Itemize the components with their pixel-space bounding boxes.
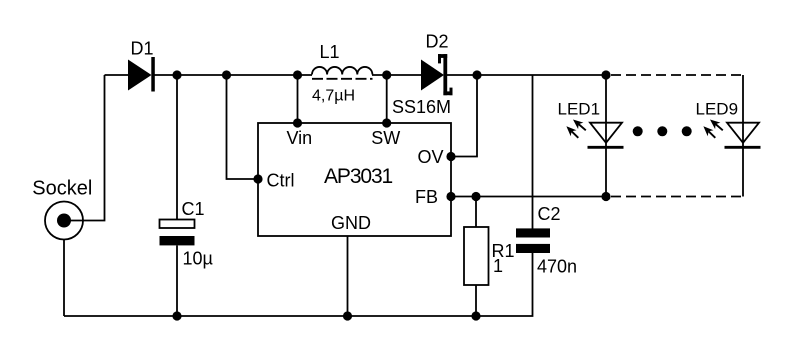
op-amp U1 AP3031 body: [258, 123, 451, 236]
wire: GND pin down to ground rail: [347, 236, 349, 316]
wire: R1 top lead: [475, 197, 477, 228]
ellipsis dots for LED2..LED8: [633, 126, 692, 136]
junction: LED1 anode node on output rail: [601, 70, 610, 79]
junction: FB pin: [446, 192, 455, 201]
wire: top rail, L1 to D2 anode: [372, 74, 422, 76]
junction: GND pin lead on ground rail: [343, 311, 352, 320]
wire: FB net horizontal to LED1 cathode column: [451, 196, 606, 198]
junction: R1 bottom on ground rail: [471, 311, 480, 320]
resistor R1: [464, 227, 489, 285]
junction: SW pin: [382, 118, 391, 127]
wire: dashed top edge of LED2..LED8 box: [611, 74, 743, 76]
wire: C1 bottom lead: [176, 246, 178, 317]
capacitor C2: [516, 228, 550, 253]
diode D1: [128, 57, 155, 92]
LED LED9: [703, 120, 760, 148]
junction: R1 top on FB net: [471, 192, 480, 201]
svg-text:GND: GND: [331, 213, 371, 233]
svg-text:470n: 470n: [537, 257, 577, 277]
svg-text:1: 1: [493, 256, 503, 276]
wire: C1 top lead: [176, 75, 178, 220]
wire: LED9 column: [742, 75, 744, 197]
junction: Ctrl branch node on top rail: [222, 70, 231, 79]
wire: dashed bottom edge of LED2..LED8 box: [611, 196, 743, 198]
svg-text:D1: D1: [131, 39, 154, 59]
junction: Vin pin: [293, 118, 302, 127]
wire: R1 bottom lead: [475, 285, 477, 316]
wire: Ctrl branch from top rail to Ctrl pin: [227, 75, 259, 179]
junction: LED1 cathode on FB net: [601, 192, 610, 201]
wire: top rail, socket corner to D1 anode: [105, 74, 129, 76]
connector J1 socket symbol: [45, 202, 83, 240]
svg-text:AP3031: AP3031: [324, 165, 393, 188]
junction: Ctrl pin: [253, 174, 262, 183]
svg-text:Sockel: Sockel: [32, 178, 92, 200]
inductor L1: [312, 67, 373, 79]
wire: SW branch from top rail to SW pin: [386, 75, 388, 123]
svg-text:SS16M: SS16M: [392, 97, 451, 117]
wire: socket sleeve down to ground rail: [63, 240, 65, 317]
svg-text:L1: L1: [320, 42, 340, 62]
junction: OV pin: [446, 152, 455, 161]
wire: OV pin right and up to top rail: [451, 75, 477, 157]
svg-text:OV: OV: [418, 147, 444, 167]
junction: SW branch node on top rail: [382, 70, 391, 79]
svg-text:FB: FB: [415, 187, 438, 207]
svg-text:D2: D2: [426, 32, 449, 52]
svg-text:4,7µH: 4,7µH: [312, 88, 355, 105]
LED LED1: [566, 120, 623, 148]
svg-text:C2: C2: [538, 204, 561, 224]
wire: bottom ground rail with rise to C2: [64, 253, 533, 316]
svg-text:10µ: 10µ: [183, 249, 213, 269]
svg-text:LED9: LED9: [696, 99, 739, 118]
wire: top rail, D2 cathode to LED1 anode column: [446, 74, 606, 76]
wire: Vin branch from top rail to Vin pin: [297, 75, 299, 123]
svg-text:SW: SW: [371, 128, 400, 148]
wire: C2 top lead from top rail: [532, 75, 534, 229]
junction: OV branch node on output rail: [472, 70, 481, 79]
junction: C1 bottom on ground rail: [172, 311, 181, 320]
svg-text:Ctrl: Ctrl: [267, 171, 295, 191]
svg-text:C1: C1: [182, 199, 205, 219]
junction: Vin branch node on top rail: [293, 70, 302, 79]
junction: C1 top node on top rail: [172, 70, 181, 79]
svg-text:LED1: LED1: [558, 99, 601, 118]
capacitor C1 (polarized): [160, 220, 195, 246]
wire: LED1 column: [605, 75, 607, 197]
wire: left vertical from top rail down to socket tip: [64, 75, 105, 221]
svg-text:Vin: Vin: [287, 128, 313, 148]
wire: top rail, D1 cathode to L1: [152, 74, 312, 76]
diode D2 (Schottky): [421, 54, 453, 95]
